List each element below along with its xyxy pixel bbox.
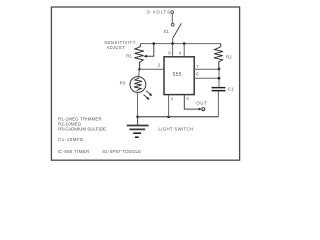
wire pin 4: [183, 44, 185, 57]
node junction pin1 / bottom rail: [167, 116, 170, 119]
battery terminal (9V): [171, 11, 174, 14]
svg-text:C1: C1: [228, 87, 234, 92]
wire node to pin 2: [139, 68, 163, 70]
switch S1 blade: [173, 23, 181, 37]
svg-text:R1: R1: [126, 53, 132, 58]
node junction top rail / S1 / pin 8: [171, 42, 174, 45]
svg-text:S1: S1: [163, 29, 169, 34]
photocell R3 bottom lead: [136, 92, 138, 116]
node junction R1 / R3 / pin 2: [138, 68, 141, 71]
node junction pin7 / right rail: [218, 68, 221, 71]
svg-text:R3: R3: [120, 81, 126, 86]
svg-text:9 VOLTS: 9 VOLTS: [147, 10, 171, 15]
node junction ground / bottom rail: [136, 116, 139, 119]
capacitor C1 top plate: [212, 87, 226, 88]
photocell R3 element zigzag: [134, 78, 142, 91]
photocell R3 circle: [130, 77, 146, 93]
ground symbol: [127, 117, 149, 137]
output terminal: [202, 108, 205, 111]
op-amp / timer IC U1 555 body: [164, 57, 194, 95]
svg-text:R2: R2: [226, 54, 232, 59]
wire pin 7 to right rail: [194, 68, 219, 70]
switch S1 contact: [171, 23, 174, 26]
node junction pin6 / right rail: [218, 77, 221, 80]
resistor R1 wiper arm: [147, 44, 154, 57]
photocell R3 light arrow 1: [146, 91, 151, 95]
resistor R1 (trimmer) body: [134, 44, 144, 70]
svg-text:R3-CADMIUM SULFIDE: R3-CADMIUM SULFIDE: [58, 126, 106, 131]
node junction top rail / pin 4: [183, 42, 186, 45]
resistor R1 wiper arrowhead: [143, 55, 147, 58]
wire pin 8: [172, 44, 174, 57]
wire C1 to bottom rail: [217, 91, 219, 116]
wire bottom rail: [138, 116, 219, 118]
svg-text:OUT: OUT: [196, 100, 207, 105]
border frame: [51, 7, 239, 160]
svg-text:C1-10MFD: C1-10MFD: [58, 137, 84, 142]
node junction top rail / R1 wiper: [153, 42, 156, 45]
svg-text:IC-555 TIMER: IC-555 TIMER: [58, 149, 91, 154]
resistor R2 body: [214, 44, 223, 70]
photocell R3 top lead: [138, 69, 141, 76]
wire pin 1 to bottom rail: [168, 95, 170, 117]
svg-text:ADJUST: ADJUST: [106, 45, 125, 50]
wire 9V terminal to switch S1: [171, 14, 173, 24]
wire pin 6 to right rail: [194, 77, 219, 79]
svg-text:LIGHT SWITCH: LIGHT SWITCH: [159, 127, 194, 132]
wire pin 3 to output: [184, 95, 199, 109]
photocell R3 light arrow 2: [144, 95, 149, 99]
svg-text:S1-SPST TOGGLE: S1-SPST TOGGLE: [102, 149, 141, 154]
capacitor C1 bottom plate: [212, 90, 226, 92]
wire right rail R2 to C1: [218, 69, 220, 87]
output arrowhead: [199, 108, 202, 111]
wire switch S1 to top rail: [172, 38, 174, 44]
svg-text:555: 555: [173, 72, 182, 78]
wire top rail (VCC): [140, 43, 221, 45]
